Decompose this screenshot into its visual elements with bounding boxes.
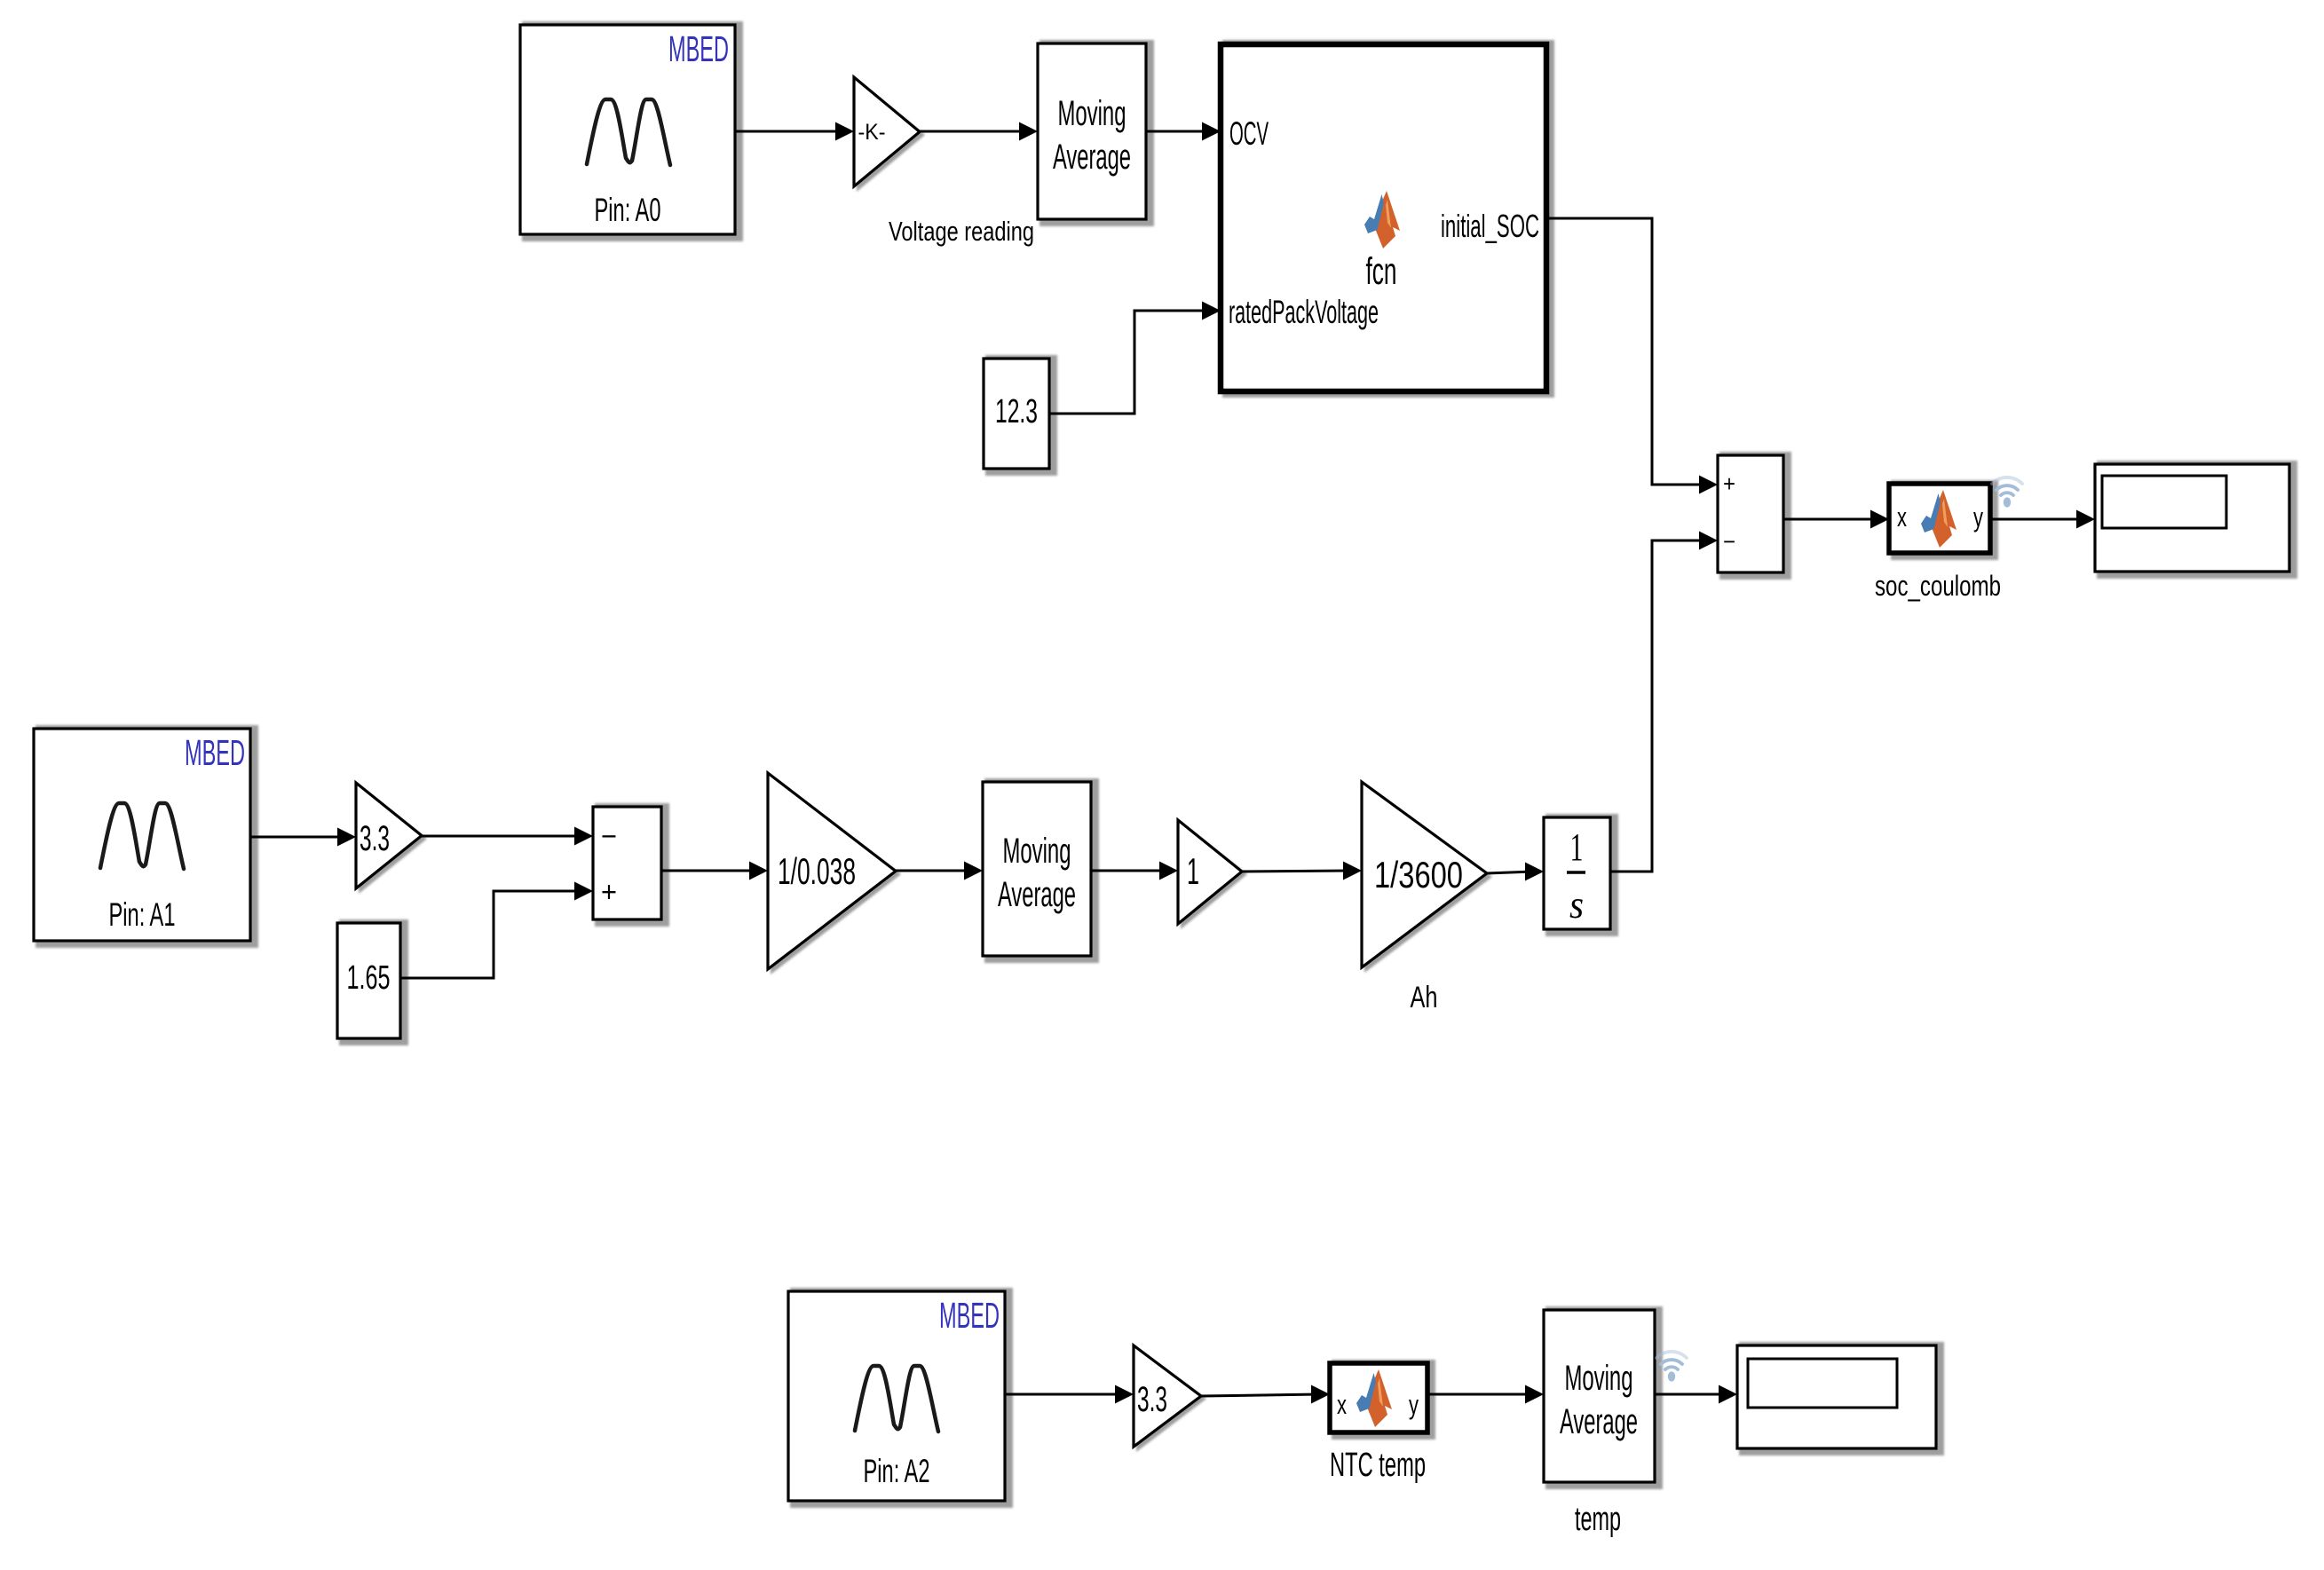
svg-text:1: 1 <box>1187 850 1199 892</box>
svg-text:y: y <box>1973 501 1983 533</box>
arrowhead into sum2 minus <box>574 827 593 846</box>
MBED analog input block A1 <box>34 729 250 941</box>
arrowhead into display 1 <box>2076 510 2095 529</box>
Moving Average block 1 <box>1038 43 1146 219</box>
svg-text:-K-: -K- <box>858 120 886 145</box>
gain -K- triangle <box>854 77 920 186</box>
svg-text:Moving: Moving <box>1565 1359 1633 1398</box>
wire 1/3600 to integrator <box>1487 872 1533 873</box>
wire gain 1 to gain 1/3600 <box>1242 871 1351 872</box>
MBED analog input block A2 (shadow) <box>790 1288 1013 1508</box>
svg-text:1.65: 1.65 <box>347 959 391 997</box>
svg-text:x: x <box>1897 501 1907 533</box>
constant 12.3 (shadow) <box>985 355 1057 476</box>
svg-text:3.3: 3.3 <box>360 819 390 858</box>
Moving Average block 2 (shadow) <box>984 778 1099 963</box>
display block 1 (shadow) <box>2097 461 2297 579</box>
arrowhead into Moving Average 3 <box>1525 1385 1544 1404</box>
svg-text:fcn: fcn <box>1366 250 1397 293</box>
svg-text:Moving: Moving <box>1003 832 1071 871</box>
wire initial_SOC to sum plus <box>1546 218 1707 485</box>
gain 3.3 row3 (shadow) <box>1136 1348 1206 1452</box>
wire Moving Average 3 to display 2 <box>1655 1393 1727 1396</box>
svg-text:Pin: A1: Pin: A1 <box>109 896 176 933</box>
wire A2 to gain 3.3 row3 <box>1005 1393 1123 1396</box>
MATLAB logo in NTC temp <box>1356 1369 1392 1427</box>
gain 3.3 row2 triangle <box>356 783 422 888</box>
sine icon A0 <box>587 99 670 165</box>
sum block 1 (shadow) <box>1719 452 1791 580</box>
Moving Average block 3 (shadow) <box>1545 1306 1663 1489</box>
svg-text:−: − <box>1723 528 1735 555</box>
display 1 inner field <box>2102 476 2226 528</box>
wire 1.65 to sum2 plus <box>400 891 582 978</box>
svg-text:y: y <box>1409 1389 1419 1420</box>
svg-text:1/0.038: 1/0.038 <box>778 850 856 892</box>
svg-text:Average: Average <box>1053 138 1131 177</box>
gain 1 (shadow) <box>1181 823 1247 929</box>
svg-text:+: + <box>1723 470 1735 497</box>
arrowhead into OCV port <box>1202 122 1221 141</box>
wireless icon 1 <box>1992 477 2022 508</box>
constant 1.65 <box>337 923 400 1038</box>
gain 1/0.038 triangle <box>768 773 896 969</box>
integrator block 1/s (shadow) <box>1545 814 1618 936</box>
svg-text:1: 1 <box>1570 825 1584 869</box>
arrowhead into sum plus <box>1699 476 1718 494</box>
soc_coulomb MATLAB function block <box>1889 484 1990 553</box>
MBED analog input block A1 (shadow) <box>36 725 258 948</box>
sine icon A1 <box>100 803 184 869</box>
arrowhead into gain 1 <box>1159 862 1178 880</box>
MATLAB logo in fcn <box>1364 191 1400 249</box>
svg-text:soc_coulomb: soc_coulomb <box>1875 570 2001 602</box>
svg-text:Moving: Moving <box>1058 94 1126 133</box>
arrowhead into gain 1/0.038 <box>749 862 768 880</box>
gain 3.3 row3 triangle <box>1134 1345 1201 1447</box>
Moving Average block 3 <box>1544 1310 1655 1482</box>
arrowhead into NTC temp <box>1311 1385 1330 1404</box>
svg-text:MBED: MBED <box>939 1295 1000 1336</box>
MATLAB Function block fcn <box>1221 44 1546 391</box>
arrowhead into gain 3.3 <box>337 828 356 847</box>
wire 12.3 to ratedPackVoltage <box>1049 311 1210 414</box>
wire gain 3.3 to sum2 minus <box>422 835 582 838</box>
wire integrator to sum1 minus <box>1610 540 1707 872</box>
arrowhead into display 2 <box>1719 1385 1737 1404</box>
wireless icon 2 <box>1656 1352 1687 1382</box>
arrowhead into sum2 plus <box>574 882 593 901</box>
wire gain to Moving Average 1 <box>920 130 1027 133</box>
gain 3.3 row2 (shadow) <box>359 785 427 894</box>
svg-text:3.3: 3.3 <box>1137 1380 1167 1419</box>
sum block 2 <box>593 807 661 919</box>
svg-text:Average: Average <box>1560 1402 1638 1441</box>
svg-text:Pin: A0: Pin: A0 <box>595 192 661 228</box>
arrowhead into soc_coulomb <box>1870 510 1889 529</box>
svg-text:Pin: A2: Pin: A2 <box>864 1453 930 1489</box>
NTC temp MATLAB function block <box>1330 1363 1427 1432</box>
svg-text:−: − <box>601 820 617 852</box>
sum block 1 <box>1718 455 1783 572</box>
integrator block 1/s <box>1544 817 1610 929</box>
MATLAB logo in soc_coulomb <box>1921 490 1956 548</box>
svg-text:+: + <box>601 876 617 908</box>
wire A0 to gain <box>735 130 838 133</box>
integrator fraction bar <box>1567 871 1585 874</box>
constant 12.3 <box>984 359 1049 469</box>
gain 1/0.038 (shadow) <box>771 776 901 974</box>
svg-text:s: s <box>1569 883 1584 927</box>
wire A1 to gain 3.3 <box>250 836 345 839</box>
svg-text:MBED: MBED <box>668 28 729 69</box>
svg-text:Voltage reading: Voltage reading <box>889 216 1034 247</box>
MATLAB Function block fcn (shadow) <box>1222 40 1554 398</box>
svg-text:12.3: 12.3 <box>995 393 1038 430</box>
Moving Average block 2 <box>983 782 1091 956</box>
gain 1/3600 triangle <box>1362 782 1487 967</box>
arrowhead into gain 1/3600 <box>1343 862 1362 880</box>
sum block 2 (shadow) <box>595 803 669 927</box>
Moving Average block 1 (shadow) <box>1039 40 1154 226</box>
wire 1/0.038 to Moving Average 2 <box>896 870 972 872</box>
gain 1 triangle <box>1178 820 1242 924</box>
svg-text:NTC temp: NTC temp <box>1330 1447 1426 1484</box>
display 2 inner field <box>1748 1359 1897 1408</box>
svg-text:x: x <box>1337 1389 1347 1420</box>
MBED analog input block A0 <box>520 25 735 234</box>
gain -K- (shadow) <box>857 80 925 192</box>
MBED analog input block A2 <box>788 1291 1005 1501</box>
arrowhead into Moving Average 2 <box>964 862 983 880</box>
wire soc_coulomb to display 1 <box>1990 518 2084 521</box>
wire sum2 to gain 1/0.038 <box>661 870 757 872</box>
sine icon A2 <box>855 1366 938 1432</box>
constant 1.65 (shadow) <box>339 919 408 1045</box>
svg-text:1/3600: 1/3600 <box>1374 854 1463 895</box>
arrowhead into Moving Average 1 <box>1019 122 1038 141</box>
wire Moving Average 1 to fcn OCV <box>1146 130 1210 133</box>
display block 2 (shadow) <box>1739 1342 1944 1456</box>
soc_coulomb MATLAB function block (shadow) <box>1891 480 1998 560</box>
svg-text:ratedPackVoltage: ratedPackVoltage <box>1229 294 1379 330</box>
svg-text:initial_SOC: initial_SOC <box>1441 208 1539 244</box>
svg-text:Ah: Ah <box>1411 981 1438 1014</box>
arrowhead into sum1 minus <box>1699 532 1718 550</box>
display block 2 <box>1737 1345 1936 1448</box>
svg-text:Average: Average <box>998 875 1076 914</box>
gain 1/3600 (shadow) <box>1364 785 1492 973</box>
wire gain 3.3 to NTC temp <box>1201 1394 1319 1396</box>
wire NTC temp to Moving Average 3 <box>1427 1393 1533 1396</box>
MBED analog input block A0 (shadow) <box>522 21 743 241</box>
wire sum1 to soc_coulomb <box>1783 518 1878 521</box>
svg-text:temp: temp <box>1575 1501 1621 1538</box>
wire Moving Average 2 to gain 1 <box>1091 870 1167 872</box>
arrowhead into gain -K- <box>835 122 854 141</box>
svg-text:OCV: OCV <box>1229 115 1269 152</box>
arrowhead into integrator <box>1525 863 1544 881</box>
arrowhead into ratedPackVoltage port <box>1202 302 1221 320</box>
arrowhead into gain 3.3 row3 <box>1115 1385 1134 1404</box>
display block 1 <box>2095 464 2289 572</box>
svg-text:MBED: MBED <box>185 732 245 773</box>
NTC temp MATLAB function block (shadow) <box>1332 1360 1435 1440</box>
